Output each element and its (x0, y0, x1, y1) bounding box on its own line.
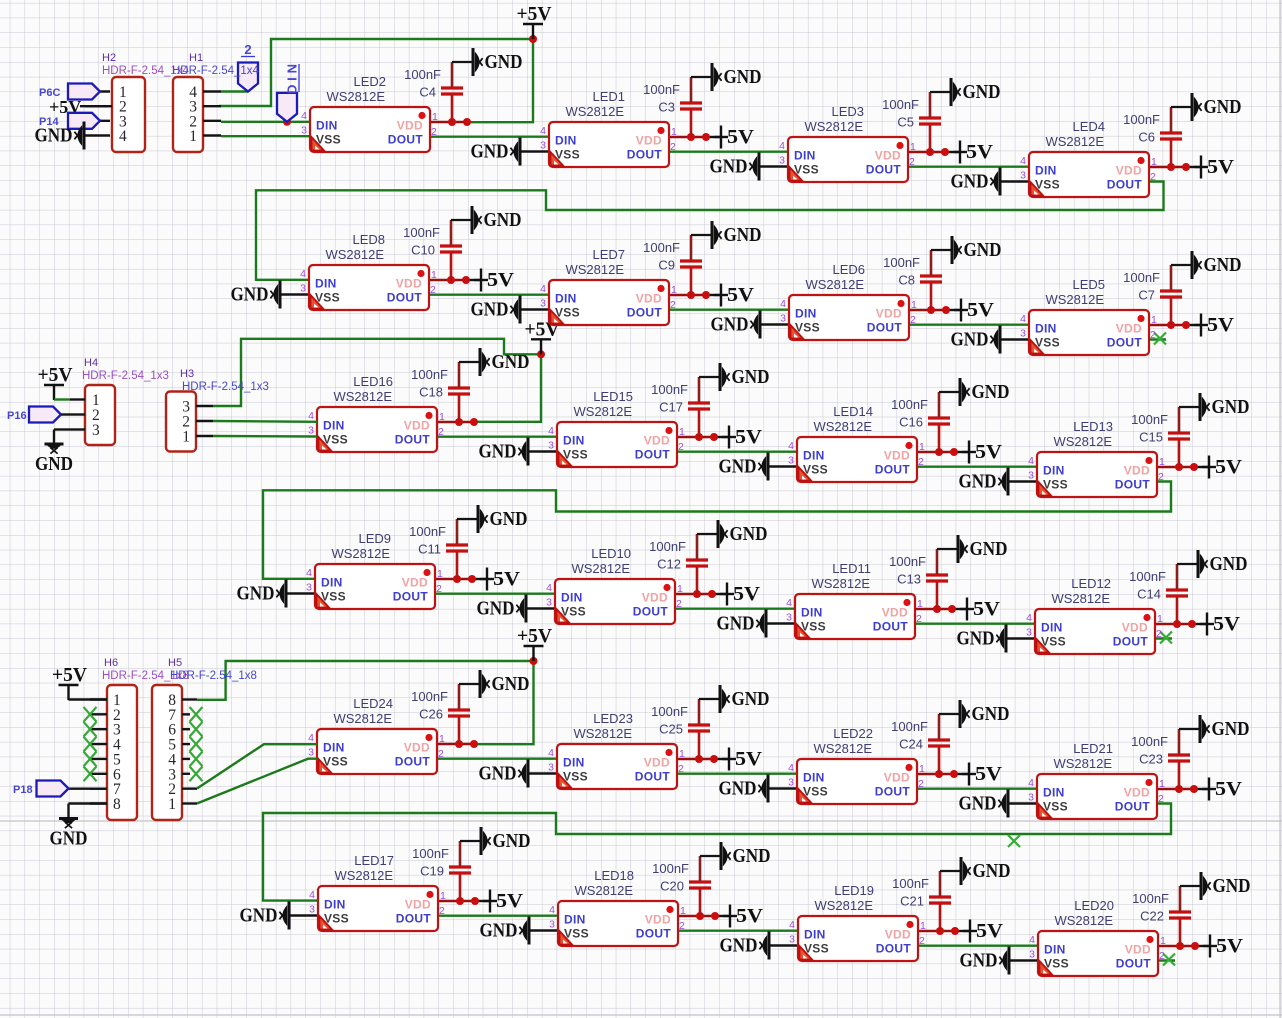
sheet boundary line horizontal (0, 820, 1282, 822)
svg-text:H4: H4 (84, 357, 98, 369)
svg-text:C26: C26 (419, 707, 443, 722)
junction dots on LED15 VDD (695, 433, 718, 441)
WS2812E LED LED13 (1028, 419, 1165, 497)
junction dots on LED11 VDD (933, 605, 956, 613)
svg-text:LED5: LED5 (1072, 277, 1105, 292)
svg-text:4: 4 (119, 128, 127, 145)
ground flag at capacitor C3 (712, 63, 762, 91)
svg-text:C5: C5 (897, 115, 914, 130)
wire VDD LED2 (+5V net) (430, 121, 467, 123)
WS2812E LED LED14 (788, 404, 925, 482)
wire LED3 DOUT to LED4 DIN (908, 165, 1029, 167)
wire VSS LED6 to GND (760, 323, 789, 325)
svg-text:C9: C9 (658, 258, 675, 273)
junction dots on LED1 VDD (687, 133, 710, 141)
svg-text:WS2812E: WS2812E (573, 404, 632, 419)
+5V power flag at LED10 (720, 583, 760, 606)
WS2812E LED LED18 (549, 868, 686, 946)
svg-text:H6: H6 (104, 657, 118, 669)
WS2812E LED LED12 (1026, 576, 1163, 654)
svg-text:C25: C25 (659, 722, 683, 737)
ground flag at LED13 VSS (959, 468, 1009, 496)
wire VSS LED22 to GND (768, 787, 797, 789)
WS2812E LED LED17 (309, 853, 446, 931)
ground flag at capacitor C24 (960, 700, 1010, 728)
wire VSS LED3 to GND (759, 165, 788, 167)
junction dots on LED20 VDD (1176, 942, 1199, 950)
capacitor C14 100nF (1129, 564, 1198, 624)
svg-text:WS2812E: WS2812E (1045, 292, 1104, 307)
wire VDD LED4 (+5V net) (1149, 166, 1186, 168)
+5V power flag at LED7 (714, 284, 754, 307)
svg-text:H5: H5 (168, 657, 182, 669)
capacitor C11 100nF (409, 519, 478, 579)
svg-text:WS2812E: WS2812E (571, 561, 630, 576)
wire VDD LED17 (+5V net) (438, 900, 475, 902)
wire VSS LED1 to GND (520, 150, 549, 152)
ground flag at LED3 VSS (710, 153, 760, 181)
ground flag at capacitor C20 (721, 842, 771, 870)
capacitor C16 100nF (891, 392, 960, 452)
svg-text:3: 3 (92, 422, 100, 439)
svg-text:C16: C16 (899, 415, 923, 430)
junction dots on LED14 VDD (935, 448, 958, 456)
WS2812E LED LED20 (1029, 898, 1166, 976)
wire VSS LED14 to GND (768, 465, 797, 467)
junction dots on LED18 VDD (696, 912, 719, 920)
ground flag at LED4 VSS (951, 168, 1001, 196)
svg-text:LED19: LED19 (834, 883, 874, 898)
ground flag at LED19 VSS (720, 932, 770, 960)
ground flag at LED7 VSS (471, 296, 521, 324)
junction dots on LED5 VDD (1167, 321, 1190, 329)
wire VSS LED18 to GND (529, 929, 558, 931)
svg-text:WS2812E: WS2812E (334, 868, 393, 883)
wire DOUT stub LED20 (1158, 959, 1175, 961)
wire VDD LED12 (+5V net) (1155, 623, 1192, 625)
ground flag at capacitor C18 (480, 348, 530, 376)
ground flag at capacitor C9 (712, 221, 762, 249)
ground flag at capacitor C12 (718, 520, 768, 548)
wire LED16 DOUT to LED15 DIN (437, 436, 557, 438)
H4 pin stubs (70, 400, 85, 430)
WS2812E LED LED2 (301, 74, 438, 152)
svg-text:H2: H2 (102, 52, 116, 64)
svg-text:1: 1 (168, 796, 176, 813)
svg-text:LED17: LED17 (354, 853, 394, 868)
WS2812E LED LED24 (308, 696, 445, 774)
capacitor C4 100nF (404, 62, 473, 122)
svg-text:WS2812E: WS2812E (325, 247, 384, 262)
wire LED9 DOUT to LED10 DIN (435, 593, 555, 595)
wire H1 pin2 to LED2 DIN (221, 121, 310, 123)
wire LED24 DOUT to LED23 DIN (437, 758, 557, 760)
ground flag at capacitor C16 (960, 378, 1010, 406)
sheet boundary line horizontal bottom (0, 1014, 1282, 1016)
capacitor C25 100nF (651, 699, 720, 759)
wire VSS LED15 to GND (528, 450, 557, 452)
ground flag at LED23 VSS (479, 760, 529, 788)
wire H5 pin2 diagonal to LED24 DIN (197, 744, 317, 788)
capacitor C21 100nF (892, 871, 961, 931)
svg-text:LED2: LED2 (353, 74, 386, 89)
ground flag at H6 pin8 (50, 804, 88, 850)
wire VDD LED10 (+5V net) (675, 593, 712, 595)
junction dots on LED12 VDD (1173, 620, 1196, 628)
svg-text:C19: C19 (420, 864, 444, 879)
svg-text:1: 1 (189, 128, 197, 145)
port flag 2 (pointing down) (238, 42, 258, 92)
capacitor C18 100nF (411, 362, 480, 422)
WS2812E LED LED5 (1020, 277, 1157, 355)
capacitor C5 100nF (882, 92, 951, 152)
wire VDD LED21 (+5V net) (1157, 788, 1194, 790)
ground flag at H2 pin4 (35, 122, 85, 150)
capacitor C6 100nF (1123, 107, 1192, 167)
ground flag at LED6 VSS (711, 311, 761, 339)
svg-text:LED10: LED10 (591, 546, 631, 561)
svg-text:HDR-F-2.54_1x3: HDR-F-2.54_1x3 (182, 381, 269, 393)
wire VSS LED8 to GND (280, 293, 309, 295)
junction dots on LED10 VDD (693, 590, 716, 598)
+5V power flag at H6 pin1 (52, 665, 107, 700)
svg-text:WS2812E: WS2812E (813, 419, 872, 434)
ground flag at capacitor C21 (961, 857, 1011, 885)
wire VDD LED8 (+5V net) (429, 279, 466, 281)
header H3 HDR-F-2.54_1x3 (166, 368, 269, 452)
junction dots on LED8 VDD (447, 276, 470, 284)
svg-text:C11: C11 (418, 542, 441, 557)
no-connect X marks H5 pins 7-3 (190, 707, 203, 781)
wire VDD LED20 (+5V net) (1158, 945, 1195, 947)
wire LED11 DOUT to LED12 DIN (915, 623, 1035, 625)
ground flag at capacitor C7 (1192, 251, 1242, 279)
ground flag at capacitor C25 (720, 685, 770, 713)
svg-text:C7: C7 (1138, 288, 1155, 303)
capacitor C20 100nF (652, 856, 721, 916)
header H6 HDR-F-2.54_1x8 (102, 657, 189, 820)
svg-text:C17: C17 (659, 400, 683, 415)
svg-text:LED16: LED16 (353, 374, 393, 389)
WS2812E LED LED9 (306, 531, 443, 609)
H5 pin stubs (182, 700, 197, 804)
svg-text:WS2812E: WS2812E (333, 711, 392, 726)
capacitor C23 100nF (1131, 729, 1200, 789)
header H5 HDR-F-2.54_1x8 (152, 657, 257, 820)
+5V power flag at LED23 (722, 748, 762, 771)
wire DOUT stub LED12 (1155, 637, 1172, 639)
wire VDD LED24 (+5V net) (437, 743, 474, 745)
wire H1 pin4 to port 2 (221, 90, 248, 92)
+5V power flag at LED14 (962, 441, 1002, 464)
svg-text:LED4: LED4 (1072, 119, 1105, 134)
wire VDD LED16 (+5V net) (437, 421, 474, 423)
+5V power flag at LED19 (963, 920, 1003, 943)
svg-text:LED21: LED21 (1073, 741, 1113, 756)
svg-text:LED23: LED23 (593, 711, 633, 726)
H2 pin stubs (85, 92, 110, 136)
no-connect X at LED20 DOUT (1163, 954, 1175, 966)
svg-text:C4: C4 (419, 85, 436, 100)
WS2812E LED LED19 (789, 883, 926, 961)
wire H6 pin8 to GND (69, 802, 108, 804)
WS2812E LED LED6 (780, 262, 917, 340)
junction dots on LED2 VDD (448, 118, 471, 126)
WS2812E LED LED15 (548, 389, 685, 467)
svg-text:WS2812E: WS2812E (573, 726, 632, 741)
ground flag at LED8 VSS (231, 281, 281, 309)
wire VDD LED23 (+5V net) (677, 758, 714, 760)
capacitor C12 100nF (649, 534, 718, 594)
+5V power flag at LED13 (1202, 456, 1242, 479)
+5V power flag row3 (525, 319, 560, 354)
junction dots on LED23 VDD (695, 755, 718, 763)
WS2812E LED LED10 (546, 546, 683, 624)
svg-text:8: 8 (113, 796, 121, 813)
svg-text:LED3: LED3 (831, 104, 864, 119)
wire LED14 DOUT to LED13 DIN (917, 466, 1037, 468)
junction dots on LED16 VDD (455, 418, 478, 426)
WS2812E LED LED4 (1020, 119, 1157, 197)
svg-text:LED18: LED18 (594, 868, 634, 883)
svg-text:1: 1 (182, 429, 190, 446)
svg-text:WS2812E: WS2812E (811, 576, 870, 591)
WS2812E LED LED1 (540, 89, 677, 167)
ground flag at capacitor C14 (1198, 550, 1248, 578)
ground flag at capacitor C5 (951, 78, 1001, 106)
wire VDD LED3 (+5V net) (908, 151, 945, 153)
wire LED17 DOUT to LED18 DIN (438, 915, 558, 917)
svg-text:P16: P16 (7, 410, 27, 422)
ground flag at LED10 VSS (477, 595, 527, 623)
wire LED8 DOUT to LED7 DIN (429, 294, 549, 296)
svg-text:LED14: LED14 (833, 404, 873, 419)
wire VSS LED21 to GND (1008, 802, 1037, 804)
svg-text:LED12: LED12 (1071, 576, 1111, 591)
wire VSS LED19 to GND (769, 944, 798, 946)
ground flag at LED1 VSS (471, 138, 521, 166)
wire LED7 DOUT to LED6 DIN (669, 309, 789, 311)
capacitor C8 100nF (883, 250, 952, 310)
+5V power flag row1 (517, 4, 552, 39)
no-connect X at LED12 DOUT (1160, 632, 1172, 644)
wire VDD LED19 (+5V net) (918, 930, 955, 932)
+5V power flag at LED17 (483, 890, 523, 913)
wire VSS LED12 to GND (1006, 637, 1035, 639)
ground flag at LED18 VSS (480, 917, 530, 945)
svg-text:WS2812E: WS2812E (331, 546, 390, 561)
junction dots on LED9 VDD (453, 575, 476, 583)
ground flag at LED11 VSS (717, 610, 767, 638)
WS2812E LED LED16 (308, 374, 445, 452)
junction dots on LED6 VDD (927, 306, 950, 314)
wire VSS LED17 to GND (289, 914, 318, 916)
wire VSS LED11 to GND (766, 622, 795, 624)
wire LED15 DOUT to LED14 DIN (677, 451, 797, 453)
ground flag at capacitor C8 (952, 236, 1002, 264)
wire +5V net row5 (H5 pin8 to LED24 VDD) (197, 661, 534, 744)
+5V power flag at LED1 (714, 126, 754, 149)
wire VSS LED20 to GND (1009, 959, 1038, 961)
svg-text:LED9: LED9 (358, 531, 391, 546)
junction dots on LED22 VDD (935, 770, 958, 778)
capacitor C10 100nF (403, 220, 472, 280)
svg-text:WS2812E: WS2812E (1054, 913, 1113, 928)
svg-text:WS2812E: WS2812E (1053, 756, 1112, 771)
svg-text:WS2812E: WS2812E (326, 89, 385, 104)
junction dots on LED21 VDD (1175, 785, 1198, 793)
ground flag at capacitor C23 (1200, 715, 1250, 743)
ground flag at LED20 VSS (960, 947, 1010, 975)
wire VDD LED5 (+5V net) (1149, 324, 1186, 326)
svg-text:LED8: LED8 (352, 232, 385, 247)
wire VDD LED6 (+5V net) (909, 309, 946, 311)
wire VSS LED23 to GND (528, 772, 557, 774)
svg-text:LED11: LED11 (832, 561, 871, 576)
WS2812E LED LED23 (548, 711, 685, 789)
stray no-connect X on loop wire (1008, 835, 1020, 847)
header H1 HDR-F-2.54_1x4 (172, 52, 260, 152)
wire VSS LED7 to GND (520, 308, 549, 310)
svg-text:C8: C8 (898, 273, 915, 288)
ground flag at LED22 VSS (719, 775, 769, 803)
junction dots on LED19 VDD (936, 927, 959, 935)
capacitor C3 100nF (643, 77, 712, 137)
wire LED10 DOUT to LED11 DIN (675, 608, 795, 610)
+5V power flag at LED3 (953, 141, 993, 164)
junction dots on LED24 VDD (455, 740, 478, 748)
wire VDD LED1 (+5V net) (669, 136, 706, 138)
+5V power flag at LED18 (723, 905, 763, 928)
ground flag at LED5 VSS (951, 326, 1001, 354)
wire loop LED4 DOUT to LED8 DIN (256, 182, 1164, 280)
wire LED23 DOUT to LED22 DIN (677, 773, 797, 775)
wire loop LED21 DOUT to LED17 DIN (263, 804, 1171, 901)
header H2 HDR-F-2.54_1x4 (102, 52, 190, 152)
svg-text:H3: H3 (180, 368, 194, 380)
svg-text:LED1: LED1 (592, 89, 625, 104)
ground flag at capacitor C6 (1192, 93, 1242, 121)
+5V power flag at H2 pin2 (49, 97, 112, 117)
ground flag at LED15 VSS (479, 438, 529, 466)
port flag P6C (39, 84, 100, 100)
svg-text:C13: C13 (897, 572, 921, 587)
ground flag at H4 pin3 (35, 430, 73, 476)
wire VDD LED14 (+5V net) (917, 451, 954, 453)
sheet boundary line vertical (1279, 0, 1281, 1018)
svg-text:C15: C15 (1139, 430, 1163, 445)
ground flag at LED21 VSS (959, 790, 1009, 818)
wire LED19 DOUT to LED20 DIN (918, 945, 1038, 947)
wire VSS LED9 to GND (286, 592, 315, 594)
svg-text:LED20: LED20 (1074, 898, 1114, 913)
wire H6 pin7 to P18 (69, 787, 108, 789)
svg-text:WS2812E: WS2812E (804, 119, 863, 134)
junction dots on LED3 VDD (926, 148, 949, 156)
junction dot DIN net (283, 118, 291, 126)
WS2812E LED LED3 (779, 104, 916, 182)
capacitor C22 100nF (1132, 886, 1201, 946)
svg-text:C23: C23 (1139, 752, 1163, 767)
svg-text:C21: C21 (900, 894, 924, 909)
+5V power flag at LED22 (962, 763, 1002, 786)
+5V power flag at LED20 (1203, 935, 1243, 958)
capacitor C26 100nF (411, 684, 480, 744)
+5V power flag at LED6 (954, 299, 994, 322)
svg-text:C6: C6 (1138, 130, 1155, 145)
WS2812E LED LED21 (1028, 741, 1165, 819)
wire +5V net row3 (H3 pin3 to LED16 VDD) (213, 339, 541, 422)
wire VDD LED7 (+5V net) (669, 294, 706, 296)
svg-text:LED13: LED13 (1073, 419, 1113, 434)
capacitor C9 100nF (643, 235, 712, 295)
port flag P18 (13, 781, 69, 797)
junction dot +5V row1 (529, 35, 537, 43)
wire VSS LED10 to GND (526, 607, 555, 609)
capacitor C7 100nF (1123, 265, 1192, 325)
svg-text:LED6: LED6 (832, 262, 865, 277)
junction dots on LED7 VDD (687, 291, 710, 299)
svg-text:WS2812E: WS2812E (565, 104, 624, 119)
wire H3 pin2 to LED16 DIN (213, 420, 317, 423)
wire +5V net row1 (H1 pin3 to LED2 VDD) (219, 39, 533, 122)
junction dots on LED13 VDD (1175, 463, 1198, 471)
+5V power flag row5 (517, 626, 552, 661)
wire VDD LED18 (+5V net) (678, 915, 715, 917)
wire LED18 DOUT to LED19 DIN (678, 930, 798, 932)
svg-text:WS2812E: WS2812E (1051, 591, 1110, 606)
wire VDD LED15 (+5V net) (677, 436, 714, 438)
svg-text:LED7: LED7 (592, 247, 625, 262)
wire LED22 DOUT to LED21 DIN (917, 788, 1037, 790)
ground flag at LED9 VSS (237, 580, 287, 608)
svg-text:LED24: LED24 (353, 696, 393, 711)
svg-text:C10: C10 (411, 243, 435, 258)
+5V power flag at LED12 (1200, 613, 1240, 636)
wire VDD LED9 (+5V net) (435, 578, 472, 580)
svg-text:C12: C12 (657, 557, 681, 572)
ground flag at capacitor C17 (720, 363, 770, 391)
ground flag at LED17 VSS (240, 902, 290, 930)
svg-text:HDR-F-2.54_1x8: HDR-F-2.54_1x8 (170, 670, 257, 682)
H1 pin stubs (203, 92, 221, 136)
+5V power flag at LED4 (1194, 156, 1234, 179)
ground flag at capacitor C22 (1201, 872, 1251, 900)
junction dots on LED4 VDD (1167, 163, 1190, 171)
ground flag at LED14 VSS (719, 453, 769, 481)
WS2812E LED LED7 (540, 247, 677, 325)
svg-text:WS2812E: WS2812E (565, 262, 624, 277)
port flag P16 (7, 407, 70, 423)
svg-text:WS2812E: WS2812E (333, 389, 392, 404)
svg-text:LED22: LED22 (833, 726, 873, 741)
wire VDD LED11 (+5V net) (915, 608, 952, 610)
svg-text:WS2812E: WS2812E (813, 741, 872, 756)
+5V power flag at LED5 (1194, 314, 1234, 337)
capacitor C13 100nF (889, 549, 958, 609)
wire H1 pin1 to LED2 VSS (221, 135, 310, 137)
no-connect X at LED5 DOUT (1154, 333, 1166, 345)
wire loop LED13 DOUT to LED9 DIN (263, 482, 1171, 579)
capacitor C17 100nF (651, 377, 720, 437)
svg-text:DIN: DIN (285, 64, 300, 94)
svg-text:C3: C3 (658, 100, 675, 115)
ground flag at capacitor C4 (473, 48, 523, 76)
svg-text:C18: C18 (419, 385, 443, 400)
capacitor C19 100nF (412, 841, 481, 901)
svg-text:LED15: LED15 (593, 389, 633, 404)
wire VDD LED13 (+5V net) (1157, 466, 1194, 468)
